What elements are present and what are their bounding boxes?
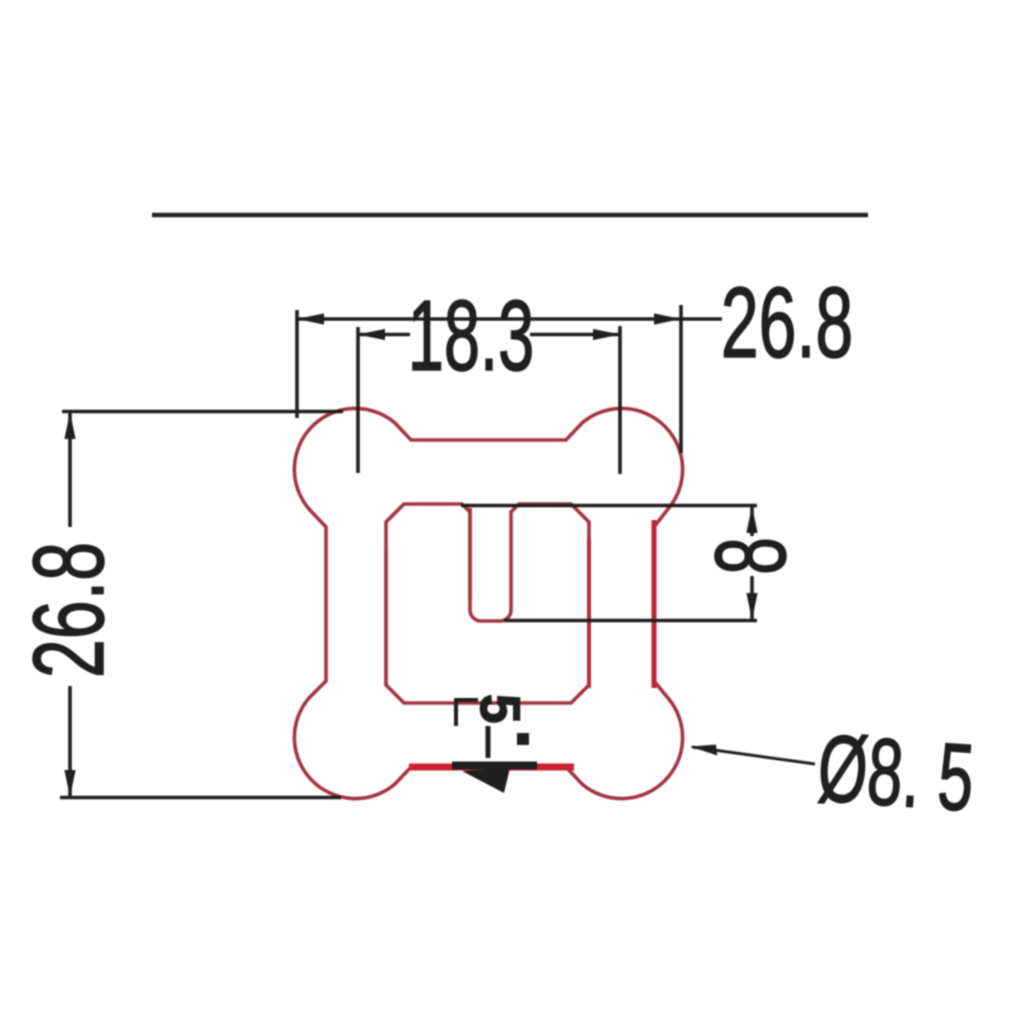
vertical dim line segments x=70 xyxy=(68,412,72,527)
svg-text:8: 8 xyxy=(696,537,807,575)
small annotation: L stroke xyxy=(456,700,478,726)
leader line for diameter callout xyxy=(692,747,815,764)
extension line left x=297 xyxy=(295,310,299,418)
small annotation: vertical stroke xyxy=(486,726,491,758)
top border rule xyxy=(152,213,868,218)
small annotation: filled arrow triangle xyxy=(462,768,510,793)
svg-text:26.8: 26.8 xyxy=(14,542,125,678)
dimension 8: top extension line xyxy=(461,504,757,508)
svg-text:5: 5 xyxy=(469,694,532,724)
leader arrow (tip at circle) xyxy=(690,745,717,756)
arrow left (tip x=358) xyxy=(358,329,385,340)
extension line right x=620 xyxy=(618,326,622,474)
arrow left (tip x=297) xyxy=(297,313,324,324)
arrow down (tip y=797) xyxy=(64,770,75,797)
profile inner cavity with U tongue xyxy=(386,504,589,703)
svg-text:18.3: 18.3 xyxy=(408,280,535,391)
red segment: right bar left edge xyxy=(587,540,591,688)
thick bright red segment: bottom bar bottom edge xyxy=(409,764,574,771)
bottom extension line xyxy=(504,619,757,623)
thick red segment: right bar right edge xyxy=(652,520,657,688)
svg-text:Ø8. 5: Ø8. 5 xyxy=(815,716,978,832)
profile outer outline (red bone frame) xyxy=(294,408,682,798)
red segment: tongue left wall xyxy=(468,508,472,600)
arrow right (tip x=681) xyxy=(654,313,681,324)
extension line left x=358 xyxy=(356,327,360,473)
small annotation: dot xyxy=(517,733,529,745)
dimension 26.8 left: top extension line xyxy=(62,410,343,414)
arrow up (tip y=506) xyxy=(746,506,757,533)
bottom extension line xyxy=(60,796,341,800)
arrow right (tip x=620) xyxy=(593,329,620,340)
red segment: left bar right edge xyxy=(384,550,388,686)
vertical dim line segments x=752 xyxy=(750,506,754,536)
extension line right x=681 xyxy=(679,305,683,453)
arrow up (tip y=412) xyxy=(64,412,75,439)
svg-text:26.8: 26.8 xyxy=(721,268,853,379)
small annotation: thick horizontal stroke xyxy=(452,762,537,770)
dimension 26.8 top: dim line xyxy=(297,317,722,321)
arrow down (tip y=620) xyxy=(746,593,757,620)
dimension 18.3: dim line segments xyxy=(358,333,410,337)
